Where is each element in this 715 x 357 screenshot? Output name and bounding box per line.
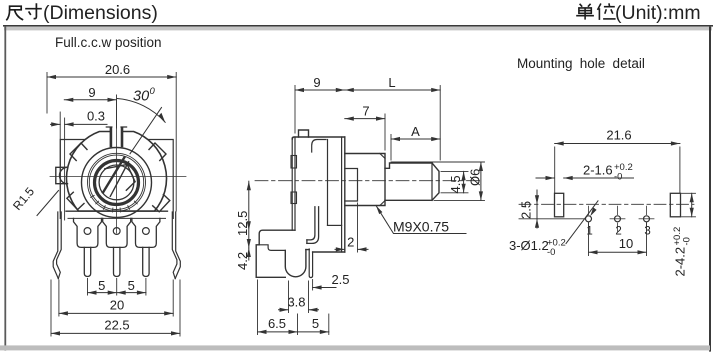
label R1.5 xyxy=(10,184,58,215)
side pin xyxy=(309,249,312,278)
dim 4.2 xyxy=(235,221,251,270)
dim 4.5 xyxy=(441,171,468,193)
svg-text:5: 5 xyxy=(128,278,135,293)
svg-text:5: 5 xyxy=(98,278,105,293)
frame right border xyxy=(709,27,711,352)
body outline top xyxy=(292,137,345,139)
body right edge inner xyxy=(341,137,343,252)
knob outer circle xyxy=(95,161,139,205)
J hook inner xyxy=(307,207,315,240)
dim 6.5 xyxy=(258,280,298,335)
centerline shaft xyxy=(255,180,481,182)
step rect xyxy=(345,169,358,202)
svg-text:6.5: 6.5 xyxy=(268,316,286,331)
svg-text:L: L xyxy=(388,75,395,90)
tab top-left xyxy=(70,143,87,161)
right bent leg xyxy=(175,212,180,279)
ring circle xyxy=(82,148,152,218)
svg-text:3: 3 xyxy=(644,226,650,238)
svg-text:0: 0 xyxy=(150,86,156,97)
CJK 尺 xyxy=(6,6,23,20)
dim diameter 6 xyxy=(391,162,485,200)
bushing chamfers xyxy=(380,154,385,206)
svg-text:-0: -0 xyxy=(547,247,555,258)
dim 2.5 xyxy=(313,272,350,290)
pin 1 xyxy=(84,247,90,276)
tab top-right xyxy=(149,143,166,161)
svg-text:(Dimensions): (Dimensions) xyxy=(43,2,158,24)
svg-text:10: 10 xyxy=(619,236,633,251)
rotor slot line A xyxy=(103,158,124,193)
rotor chord top xyxy=(105,165,127,169)
rotor slot line B xyxy=(110,162,128,197)
dim 2 xyxy=(335,203,368,252)
svg-text:0.3: 0.3 xyxy=(87,109,105,124)
dim 10 xyxy=(589,223,647,256)
dim 9 (front) xyxy=(64,85,116,128)
lug 3 hole xyxy=(143,228,150,235)
body left edge inner xyxy=(294,137,296,230)
body inner bottom xyxy=(328,224,342,226)
mounting centerline xyxy=(519,203,694,205)
left slot xyxy=(555,193,564,217)
body right edge outer xyxy=(344,137,346,252)
svg-text:22.5: 22.5 xyxy=(104,318,129,333)
hole 3 xyxy=(639,206,654,237)
dim 2.5 (mount) xyxy=(519,190,585,228)
housing top notch xyxy=(106,127,126,146)
pin 3 xyxy=(143,247,149,276)
svg-text:2-1.6: 2-1.6 xyxy=(583,163,613,178)
left tab R1.5 xyxy=(56,167,68,183)
terminal lug 2 xyxy=(103,218,131,247)
lug plate top line xyxy=(66,210,168,212)
svg-text:4.5: 4.5 xyxy=(448,175,463,193)
svg-text:5: 5 xyxy=(312,316,319,331)
J hook outer xyxy=(307,207,319,244)
svg-text:M9X0.75: M9X0.75 xyxy=(393,219,449,235)
foot inner step xyxy=(259,245,285,251)
dim A xyxy=(391,124,440,160)
svg-text:20.6: 20.6 xyxy=(105,62,130,77)
svg-text:2-4.2: 2-4.2 xyxy=(673,247,688,277)
svg-text:Mounting hole detail: Mounting hole detail xyxy=(517,56,645,71)
svg-text:3.8: 3.8 xyxy=(287,294,305,309)
svg-text:1: 1 xyxy=(586,226,592,238)
tab bottom-left xyxy=(67,192,84,209)
svg-text:2: 2 xyxy=(347,235,354,250)
CJK 单 xyxy=(576,4,594,20)
hole 1 xyxy=(586,206,593,237)
svg-text:3-Ø1.2: 3-Ø1.2 xyxy=(509,238,549,253)
pin 2 xyxy=(114,247,120,276)
svg-text:2.5: 2.5 xyxy=(331,272,349,287)
dim 2-4.2 +0.2 -0 vertical xyxy=(672,193,696,276)
rotor chord bottom xyxy=(126,182,135,191)
lug 2 hole xyxy=(113,228,120,235)
dim L xyxy=(345,75,440,160)
dim 21.6 xyxy=(555,128,680,193)
svg-text:7: 7 xyxy=(362,104,369,119)
bushing xyxy=(345,154,385,206)
dim 9 (side) xyxy=(295,75,345,133)
dim 5 (side) xyxy=(298,314,329,335)
vertical centerline xyxy=(116,100,118,233)
lug plate second line xyxy=(68,217,166,219)
hole 2 xyxy=(610,206,625,237)
svg-text:9: 9 xyxy=(88,85,95,100)
shaft top xyxy=(385,163,432,168)
svg-text:9: 9 xyxy=(313,75,320,90)
knob inner circle xyxy=(99,165,134,200)
CJK 寸 xyxy=(25,3,42,18)
svg-text:Full.c.c.w position: Full.c.c.w position xyxy=(55,35,162,50)
rear bracket left wing xyxy=(60,140,85,219)
shaft tip edge xyxy=(431,163,433,200)
svg-text:20: 20 xyxy=(110,298,124,313)
U tab xyxy=(285,250,306,277)
body inner vertical xyxy=(327,140,329,226)
dim 5 5 pins xyxy=(88,278,146,295)
shaft bottom xyxy=(385,199,432,201)
rotor chord right xyxy=(127,165,135,182)
svg-text:A: A xyxy=(411,124,420,139)
label M9X0.75 xyxy=(376,206,466,235)
dim 0.3 xyxy=(51,109,108,221)
svg-text:Ø6: Ø6 xyxy=(468,169,483,186)
dim 22.5 xyxy=(51,280,180,336)
frame top border xyxy=(4,27,712,31)
shaft tip xyxy=(432,163,439,200)
dim 30 degrees xyxy=(117,86,165,154)
svg-text:21.6: 21.6 xyxy=(606,128,631,143)
body left window upper xyxy=(291,156,297,169)
dim 2-1.6 +0.2 -0 xyxy=(536,162,634,183)
foot outline xyxy=(256,230,295,277)
dim 20.6 xyxy=(47,62,176,211)
svg-text:-0: -0 xyxy=(682,237,693,245)
dim 3.8 xyxy=(279,281,319,313)
bottom edge segments xyxy=(306,250,345,252)
terminal lug 3 xyxy=(132,218,160,247)
title rule xyxy=(3,25,713,27)
left bent leg xyxy=(53,212,58,279)
bezel circles xyxy=(88,153,146,211)
label 3-diam1.2 with leader xyxy=(509,201,598,258)
svg-text:(Unit):mm: (Unit):mm xyxy=(615,2,701,24)
body left edge outer xyxy=(291,138,293,230)
frame left border xyxy=(4,27,6,351)
right slot xyxy=(670,193,680,217)
terminal lug 1 xyxy=(74,218,102,247)
dim 7 xyxy=(345,104,385,151)
horizontal centerline xyxy=(50,176,186,178)
detent teeth xyxy=(91,195,138,212)
J hook left close xyxy=(306,240,308,244)
body top bump xyxy=(299,130,309,137)
body inner fold rounded corner xyxy=(312,140,326,153)
dim 12.5 xyxy=(235,181,251,248)
svg-text:2.5: 2.5 xyxy=(519,201,534,219)
front housing outline xyxy=(66,132,166,212)
lug 1 hole xyxy=(84,228,91,235)
CJK 位 xyxy=(598,3,616,20)
rear bracket right wing xyxy=(148,140,173,219)
body left window lower xyxy=(291,192,297,204)
frame bottom border xyxy=(0,345,710,350)
dim 20 xyxy=(59,280,173,316)
svg-text:-0: -0 xyxy=(614,172,622,183)
tab bottom-right xyxy=(153,195,170,212)
